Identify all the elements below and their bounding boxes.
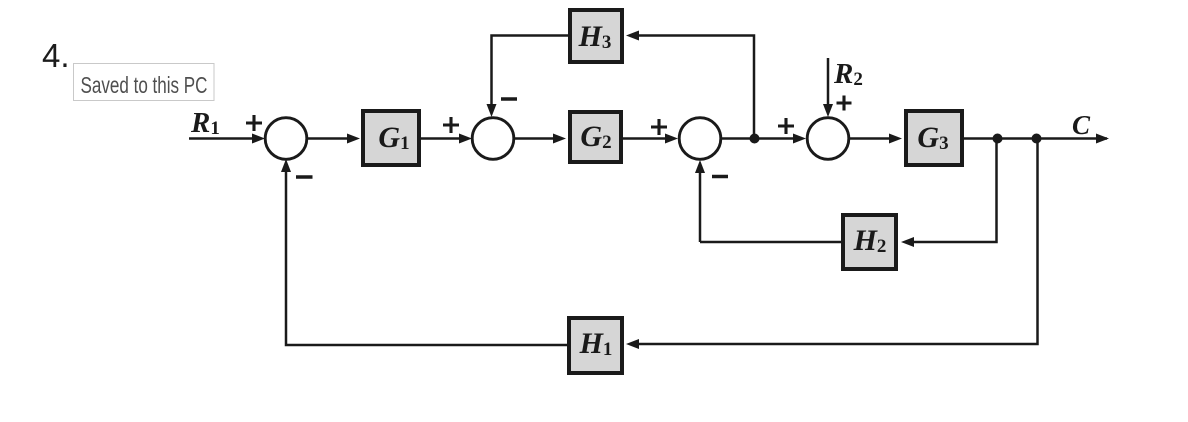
- svg-text:Saved to this PC: Saved to this PC: [81, 72, 208, 98]
- svg-text:C: C: [1072, 110, 1091, 140]
- svg-text:4.: 4.: [42, 37, 70, 74]
